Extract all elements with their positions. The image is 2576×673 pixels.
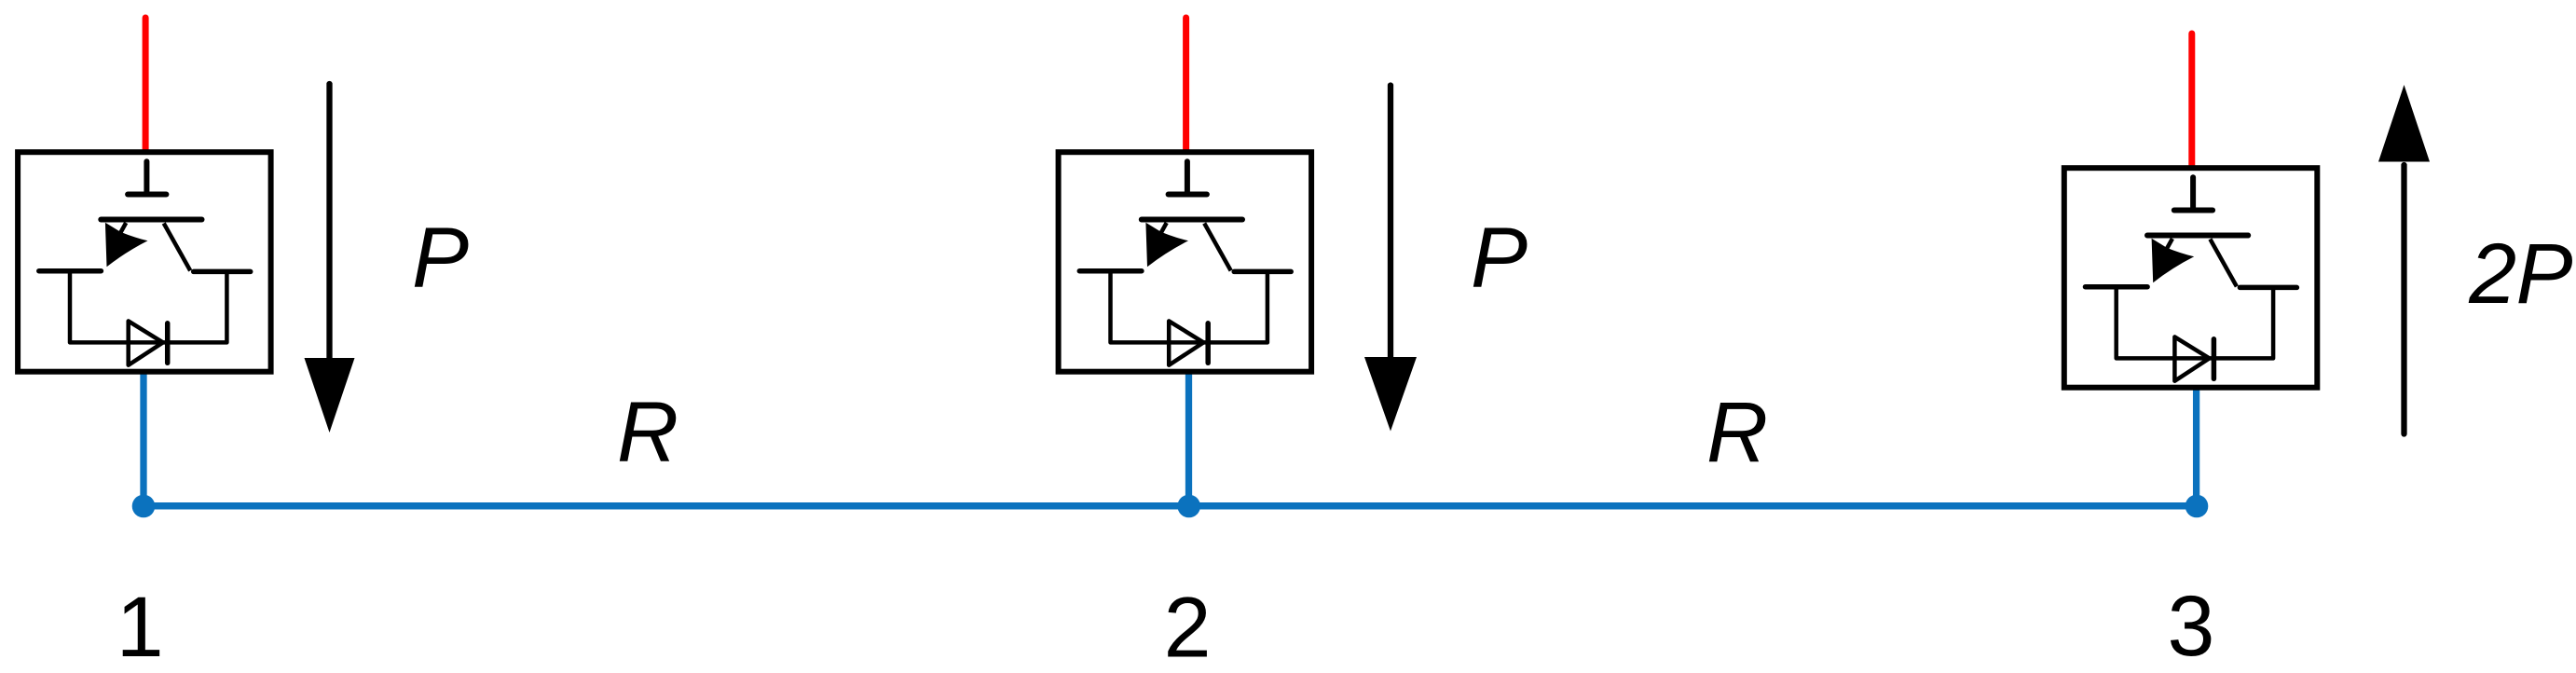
svg-text:R: R — [617, 385, 678, 480]
svg-text:1: 1 — [116, 580, 164, 668]
svg-text:P: P — [1471, 211, 1528, 306]
svg-text:3: 3 — [2168, 579, 2215, 668]
svg-text:2: 2 — [2468, 227, 2516, 322]
svg-text:P: P — [412, 210, 469, 305]
svg-text:R: R — [1706, 386, 1768, 481]
svg-text:2: 2 — [1164, 581, 1212, 668]
svg-text:P: P — [2516, 227, 2573, 322]
